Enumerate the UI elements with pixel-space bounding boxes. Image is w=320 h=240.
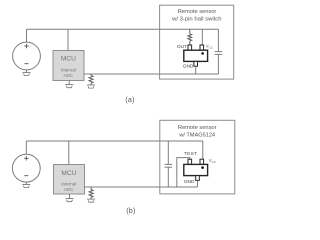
wire: ADC / ground-return line from MCU to sensor (a) xyxy=(84,73,218,75)
wire: top supply rail (a) xyxy=(27,28,219,30)
wire: rail drop to VCC pin (b) xyxy=(202,141,204,159)
svg-text:Internal: Internal xyxy=(61,68,76,73)
svg-text:Internal: Internal xyxy=(61,182,76,187)
ground below source V2 (b) xyxy=(22,182,30,188)
resistor R2 pull-up (a) xyxy=(188,29,192,45)
hall switch U2 package (a) xyxy=(184,45,208,66)
svg-text:w/ TMAG5124: w/ TMAG5124 xyxy=(178,133,215,139)
wire: rail drop to VCC pin (a) xyxy=(201,29,203,45)
label: Remote sensor w/ 3-pin hall switch xyxy=(171,9,221,22)
svg-text:MCU: MCU xyxy=(61,56,76,63)
svg-text:(b): (b) xyxy=(126,206,135,215)
wire: rail drop to MCU (b) xyxy=(68,141,70,165)
svg-text:VCC: VCC xyxy=(209,158,216,164)
ground below MCU (a) xyxy=(65,81,73,88)
svg-text:Remote sensor: Remote sensor xyxy=(178,125,217,131)
resistor R1 sense pulldown (a) xyxy=(89,74,93,85)
svg-text:Remote sensor: Remote sensor xyxy=(178,9,217,15)
wire: GND pin to return line (b) xyxy=(197,180,199,187)
ground below resistor R1 (a) xyxy=(87,85,95,88)
svg-text:ADC: ADC xyxy=(64,187,74,192)
MCU U3 (b) xyxy=(54,165,85,195)
resistor R3 sense pulldown (b) xyxy=(89,187,93,199)
ground below source V1 (a) xyxy=(23,70,31,76)
wire: TEST pin tie-down (b) xyxy=(177,158,190,187)
svg-text:MCU: MCU xyxy=(61,170,76,177)
wire: rail drop to source V2 top xyxy=(25,141,27,154)
svg-text:ADC: ADC xyxy=(63,73,73,78)
wire: top supply rail (b) xyxy=(26,140,203,142)
wire: ADC / ground-return line from MCU to sensor (b) xyxy=(85,186,198,188)
voltage source V1 (a) xyxy=(13,42,41,70)
ground below resistor R3 (b) xyxy=(87,199,95,202)
wire: rail drop to MCU (a) xyxy=(67,29,69,50)
MCU U1 (a) xyxy=(53,51,84,81)
capacitor C2 (b) xyxy=(165,141,173,187)
svg-text:TEST: TEST xyxy=(184,151,197,157)
svg-text:(a): (a) xyxy=(125,95,134,104)
ground below MCU (b) xyxy=(66,194,74,202)
remote sensor enclosure box (b) xyxy=(160,120,235,194)
svg-text:VCC: VCC xyxy=(206,44,213,50)
svg-text:GND: GND xyxy=(184,179,195,185)
voltage source V2 (b) xyxy=(12,154,40,182)
svg-text:w/ 3-pin hall switch: w/ 3-pin hall switch xyxy=(171,17,221,23)
wire: GND pin to return line (a) xyxy=(195,66,197,74)
remote sensor enclosure box (a) xyxy=(160,5,234,79)
svg-text:GND: GND xyxy=(183,64,194,70)
svg-text:OUT: OUT xyxy=(177,44,187,50)
label: Remote sensor w/ TMAG5124 xyxy=(178,125,217,139)
wire: rail drop to source V1 top xyxy=(26,29,28,42)
TMAG5124 U4 package (b) xyxy=(184,159,208,180)
capacitor C1 (a) xyxy=(215,29,223,74)
